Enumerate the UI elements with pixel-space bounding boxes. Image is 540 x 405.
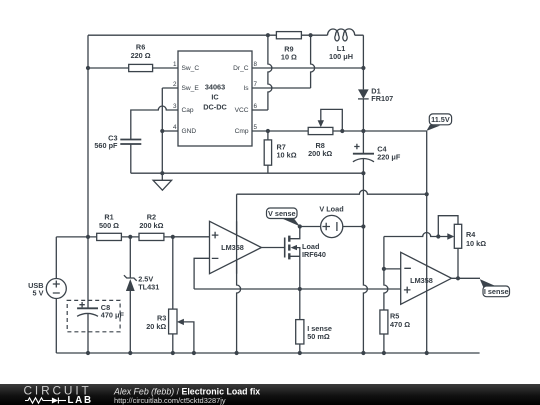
svg-text:34063: 34063 [205, 83, 225, 92]
svg-text:IRF640: IRF640 [302, 250, 326, 259]
svg-text:220 μF: 220 μF [377, 152, 401, 161]
svg-text:R4: R4 [466, 230, 476, 239]
svg-text:4: 4 [173, 124, 177, 131]
svg-text:3: 3 [173, 103, 177, 110]
svg-text:10 kΩ: 10 kΩ [277, 151, 297, 160]
svg-text:IC: IC [211, 93, 219, 102]
svg-text:LM358: LM358 [410, 276, 433, 285]
svg-text:50 mΩ: 50 mΩ [307, 332, 330, 341]
svg-text:100 μH: 100 μH [329, 52, 353, 61]
svg-text:VCC: VCC [235, 107, 249, 114]
svg-text:Dr_C: Dr_C [233, 65, 249, 72]
svg-text:2: 2 [173, 81, 177, 88]
svg-text:Is: Is [243, 85, 249, 92]
svg-text:V sense: V sense [268, 209, 296, 218]
svg-text:GND: GND [182, 128, 197, 135]
svg-text:500 Ω: 500 Ω [99, 221, 119, 230]
svg-text:R2: R2 [147, 212, 156, 221]
svg-text:5: 5 [254, 124, 258, 131]
svg-text:11.5V: 11.5V [431, 115, 450, 124]
svg-text:470 μF: 470 μF [101, 311, 125, 320]
svg-text:Sw_E: Sw_E [182, 85, 200, 92]
svg-text:560 pF: 560 pF [94, 141, 118, 150]
svg-text:LM358: LM358 [221, 243, 244, 252]
svg-text:Cap: Cap [182, 107, 194, 114]
svg-text:Cmp: Cmp [235, 128, 249, 135]
svg-text:TL431: TL431 [138, 282, 159, 291]
svg-text:20 kΩ: 20 kΩ [146, 322, 166, 331]
svg-text:200 kΩ: 200 kΩ [139, 221, 163, 230]
svg-text:LAB: LAB [68, 395, 93, 405]
svg-text:Alex Feb (febb) / Electronic L: Alex Feb (febb) / Electronic Load fix [113, 387, 260, 397]
svg-text:220 Ω: 220 Ω [131, 51, 151, 60]
svg-text:DC-DC: DC-DC [203, 103, 227, 112]
svg-text:10 Ω: 10 Ω [281, 52, 297, 61]
svg-text:200 kΩ: 200 kΩ [308, 149, 332, 158]
svg-text:470 Ω: 470 Ω [390, 320, 410, 329]
svg-text:10 kΩ: 10 kΩ [466, 239, 486, 248]
svg-text:V Load: V Load [319, 205, 343, 214]
svg-text:R1: R1 [104, 212, 113, 221]
svg-text:FR107: FR107 [371, 94, 393, 103]
svg-text:1: 1 [173, 61, 177, 68]
svg-text:R5: R5 [390, 311, 399, 320]
svg-text:http://circuitlab.com/ct5cktd3: http://circuitlab.com/ct5cktd3287jy [114, 396, 226, 405]
svg-text:5 V: 5 V [33, 289, 44, 298]
svg-text:I sense: I sense [484, 287, 509, 296]
svg-text:6: 6 [254, 103, 258, 110]
svg-text:Sw_C: Sw_C [182, 65, 200, 72]
svg-text:7: 7 [254, 81, 258, 88]
svg-text:8: 8 [254, 61, 258, 68]
